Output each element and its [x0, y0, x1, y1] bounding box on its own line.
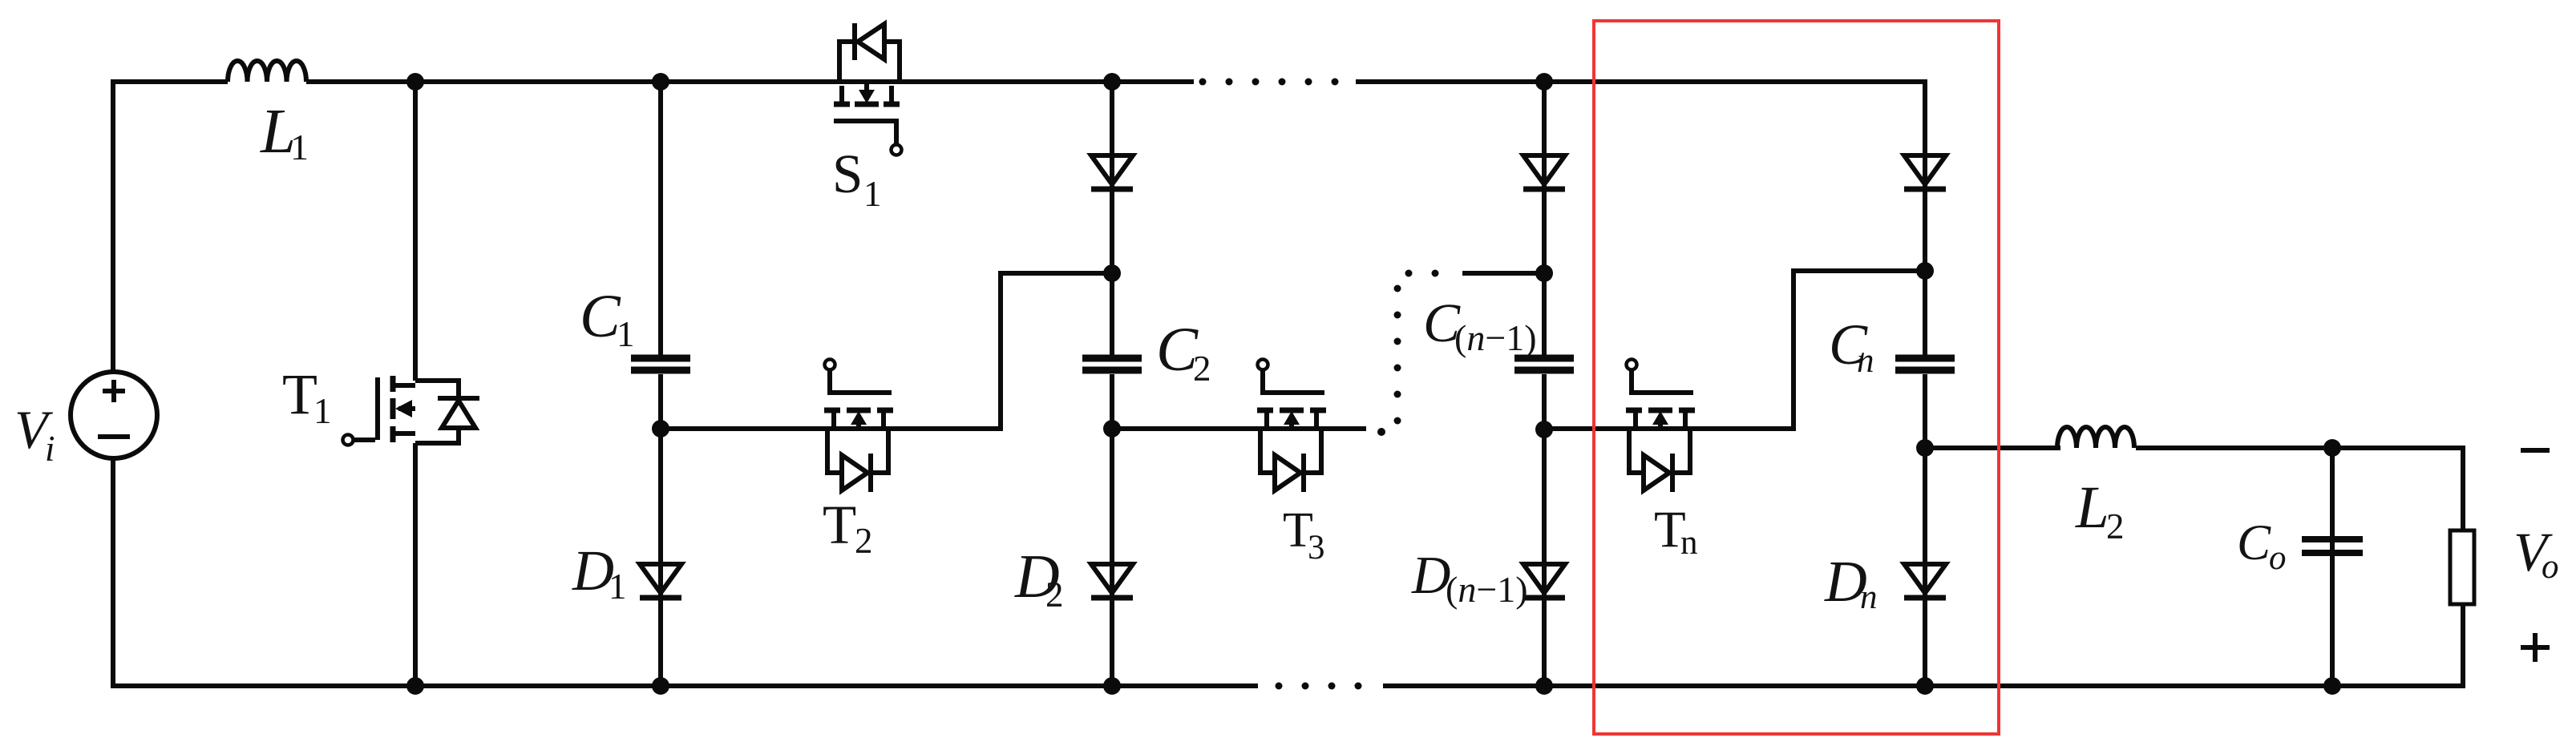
svg-text:T: T [282, 362, 317, 426]
diode (top of column 2) [1091, 155, 1133, 189]
svg-text:1: 1 [863, 174, 882, 214]
wire: node C1 to T2 source [661, 426, 827, 431]
wire: top rail from corner to L1 [111, 79, 228, 84]
diode (top of column n-1) [1523, 155, 1565, 189]
capacitor C(n-1) [1514, 358, 1574, 370]
junction node Cn bottom output [1916, 439, 1934, 457]
junction node C(n-1) bottom [1535, 421, 1553, 438]
svg-text:n: n [1857, 342, 1874, 380]
svg-text:C: C [580, 283, 621, 350]
svg-text:o: o [2542, 548, 2559, 586]
svg-text:n: n [1680, 524, 1698, 562]
transistor Tn (MOSFET with body diode) [1626, 360, 1695, 493]
svg-text:L: L [2075, 474, 2109, 541]
transistor T3 (MOSFET with body diode) [1257, 360, 1326, 493]
transistor T1 (MOSFET with body diode) [343, 376, 480, 446]
wire: node C2 to T3 source [1112, 426, 1260, 431]
wire: top rail after dotted gap to right corner [1356, 79, 1925, 84]
junction node top rail at C1 column [652, 73, 669, 91]
wire: column n-1 from top rail to diode [1542, 82, 1547, 355]
label Tn [1654, 501, 1698, 562]
label T3 [1283, 503, 1325, 567]
wire: Tn drain right then up to Cn top node [1690, 271, 1925, 429]
junction node Co top [2323, 439, 2341, 457]
capacitor Cn [1895, 358, 1955, 370]
wire: T3 drain stub [1321, 426, 1366, 431]
label Vi [14, 399, 55, 469]
wire: Cn bottom to Dn to bottom rail [1923, 374, 1927, 686]
junction node top rail at column n-1 [1535, 73, 1553, 91]
svg-text:1: 1 [313, 391, 332, 431]
wire: T2 drain right then up to C2 top node [888, 273, 1112, 429]
svg-text:i: i [45, 429, 55, 469]
junction node bottom rail at D(n-1) [1535, 677, 1553, 695]
transistor T2 (MOSFET with body diode) [824, 360, 893, 493]
wire: top rail L1 to dotted gap [306, 79, 1194, 84]
label T1 [282, 362, 332, 431]
wire: C1 column top (top rail to C1) [658, 82, 663, 355]
wire: link into C(n-1) top node [1462, 271, 1544, 276]
junction node bottom rail at Co [2323, 677, 2341, 695]
junction node C2 bottom [1103, 420, 1121, 437]
capacitor C1 [631, 358, 690, 370]
svg-text:2: 2 [1045, 575, 1064, 615]
ellipsis dots horizontal into C(n-1) node [1405, 270, 1439, 277]
label Dn [1824, 549, 1878, 616]
label Cn [1829, 312, 1874, 380]
label D1 [572, 538, 627, 607]
label L2 [2075, 474, 2125, 546]
output minus sign [2521, 448, 2550, 453]
wire: bottom rail left segment [111, 683, 1258, 688]
svg-text:3: 3 [1308, 529, 1325, 567]
diode D1 [640, 564, 681, 598]
svg-text:(n−1): (n−1) [1446, 569, 1528, 610]
junction node C2 top [1103, 264, 1121, 282]
junction node C(n-1) top [1535, 264, 1553, 282]
svg-text:S: S [832, 143, 863, 204]
wire: T1 drain from top rail [413, 82, 418, 381]
diode (top of column n) [1904, 155, 1946, 189]
junction node bottom rail at D2 [1103, 677, 1121, 695]
wire: column n from top rail corner down to diode [1923, 79, 1927, 355]
svg-text:2: 2 [2106, 506, 2125, 546]
capacitor Co [2302, 539, 2363, 553]
wire: load to bottom rail [2461, 604, 2465, 688]
label D2 [1014, 542, 1064, 615]
junction node bottom rail at Dn [1916, 677, 1934, 695]
ellipsis dots vertical between T3 and column n-1 [1394, 285, 1401, 425]
diode D2 [1091, 564, 1133, 598]
junction node bottom rail at T1 [406, 677, 424, 695]
svg-text:1: 1 [290, 127, 309, 167]
svg-text:2: 2 [1193, 349, 1211, 389]
svg-text:T: T [823, 494, 856, 555]
label D(n-1) [1411, 546, 1528, 610]
wire: output node to L2 [1925, 446, 2060, 450]
svg-text:o: o [2269, 539, 2287, 577]
label C(n-1) [1423, 292, 1537, 358]
output plus sign [2521, 633, 2550, 662]
junction node top rail at column 2 [1103, 73, 1121, 91]
junction node top rail at T1 [406, 73, 424, 91]
svg-text:C: C [2237, 514, 2271, 571]
svg-text:D: D [1411, 546, 1450, 605]
wire: left vertical upper (Vi to top rail) [111, 82, 115, 372]
svg-text:2: 2 [855, 521, 873, 561]
wire: C1 bottom to D1 [658, 374, 663, 686]
wire: C2 bottom to D2 to bottom rail [1110, 374, 1114, 686]
switch S1 (MOSFET with body diode, on top rail) [834, 23, 902, 155]
ellipsis dots on bottom rail [1276, 683, 1362, 690]
wire: L2 to load corner [2136, 448, 2463, 530]
label T2 [823, 494, 873, 561]
diode D(n-1) [1523, 564, 1565, 598]
ellipsis dot after T3 drain [1377, 428, 1385, 436]
label Vo [2513, 522, 2559, 586]
wire: node C(n-1) to Tn source [1544, 426, 1629, 431]
wire: bottom rail right segment [1383, 683, 2463, 688]
label C2 [1156, 314, 1211, 389]
wire: column 2 from top rail to diode [1110, 82, 1114, 355]
diode Dn [1904, 564, 1946, 598]
svg-text:1: 1 [609, 567, 627, 607]
junction node Cn top [1916, 262, 1934, 280]
label C1 [580, 283, 635, 354]
inductor L2 [2057, 427, 2134, 448]
voltage source Vi [71, 372, 157, 458]
wire: left vertical lower (Vi to bottom rail) [111, 458, 115, 686]
svg-text:n: n [1860, 579, 1878, 616]
resistor load Vo [2450, 530, 2474, 604]
wire: C(n-1) bottom to D(n-1) to bottom rail [1542, 374, 1547, 686]
label Co [2237, 514, 2287, 577]
svg-text:(n−1): (n−1) [1454, 317, 1537, 358]
wire: T1 source to bottom rail [413, 443, 418, 686]
ellipsis dots on top rail [1199, 79, 1339, 86]
label L1 [260, 97, 309, 167]
capacitor C2 [1082, 358, 1142, 370]
highlight box (red cell outline) [1594, 21, 1999, 734]
inductor L1 [228, 61, 306, 82]
junction node C1 bottom [652, 420, 669, 437]
wire: Co column [2330, 448, 2335, 686]
svg-text:1: 1 [617, 314, 635, 354]
junction node bottom rail at D1 [652, 677, 669, 695]
label S1 [832, 143, 882, 214]
